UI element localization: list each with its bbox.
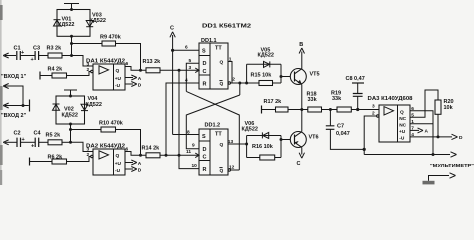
svg-text:NC: NC xyxy=(399,116,406,122)
resistor R13 2k xyxy=(143,59,162,73)
resistor R3 2k xyxy=(47,46,63,59)
svg-text:3: 3 xyxy=(189,65,192,71)
resistor R10 470k xyxy=(99,121,124,133)
wire: Q1 stub xyxy=(228,62,232,83)
svg-text:R4 2k: R4 2k xyxy=(48,67,64,73)
input 2 shield arrow and terminal bar xyxy=(5,105,29,107)
svg-text:C: C xyxy=(170,26,174,32)
wire: R4 to DA1 pin2 xyxy=(67,72,91,76)
wire junction xyxy=(178,69,181,72)
svg-text:A: A xyxy=(425,129,429,135)
svg-text:C4: C4 xyxy=(34,131,42,137)
wire junction xyxy=(363,148,366,151)
diode V04 КД522 xyxy=(81,96,102,111)
input 2 arrow xyxy=(5,141,17,143)
wire: R9 to DA1 output xyxy=(116,44,141,71)
svg-text:D: D xyxy=(203,61,207,67)
svg-text:33k: 33k xyxy=(308,97,318,103)
wire junction xyxy=(69,128,72,131)
wire junction xyxy=(437,135,440,138)
wire junction xyxy=(329,108,332,111)
wire junction xyxy=(238,82,241,85)
wire: clamp loop 1 frame xyxy=(57,10,90,37)
node A arrow (DA2 +U) xyxy=(125,162,133,164)
svg-text:Q: Q xyxy=(116,68,120,74)
svg-text:"МУЛЬТИМЕТР": "МУЛЬТИМЕТР" xyxy=(430,163,474,169)
svg-text:C2: C2 xyxy=(14,131,21,137)
svg-text:DD1.2: DD1.2 xyxy=(205,123,221,129)
node D arrow (DA2 -U) xyxy=(125,168,133,170)
svg-text:10: 10 xyxy=(192,163,198,169)
svg-text:VT6: VT6 xyxy=(309,135,319,141)
resistor R14 2k xyxy=(142,146,161,158)
transistor VT6 xyxy=(290,132,318,148)
diode V05 xyxy=(264,61,270,67)
wire junction xyxy=(280,138,283,141)
resistor R19 33k xyxy=(331,91,351,113)
svg-text:+U: +U xyxy=(399,129,406,135)
flip-flop DD1.1 (К561ТМ2) xyxy=(185,24,251,90)
svg-text:B: B xyxy=(299,42,303,48)
wire: VT6 collector up xyxy=(301,110,303,132)
svg-text:C8 0,47: C8 0,47 xyxy=(346,76,365,82)
svg-text:КД522: КД522 xyxy=(258,53,274,59)
resistor R6 2k xyxy=(48,155,67,165)
resistor R9 470k xyxy=(100,35,122,47)
svg-text:R13 2k: R13 2k xyxy=(143,59,162,65)
node C arrow (clock input) xyxy=(170,26,175,135)
svg-text:Q: Q xyxy=(220,168,224,174)
svg-text:A: A xyxy=(138,161,142,167)
multimeter output line xyxy=(364,154,450,156)
resistor R17 2k xyxy=(264,99,289,112)
svg-text:Q: Q xyxy=(400,109,404,115)
resistor R5 2k xyxy=(46,133,63,145)
svg-text:+U: +U xyxy=(115,76,122,82)
svg-text:КД522: КД522 xyxy=(86,102,102,108)
svg-text:5: 5 xyxy=(189,58,192,64)
svg-text:D: D xyxy=(138,167,142,173)
wire: C node to DD1.1 S xyxy=(173,49,199,51)
wire: DA3 pin6 output down to multimeter line xyxy=(410,111,433,155)
wire: VT5 emitter down xyxy=(301,84,303,109)
svg-text:КД522: КД522 xyxy=(58,22,74,28)
svg-text:4: 4 xyxy=(185,78,188,84)
node junction top of loop1 xyxy=(70,8,73,11)
resistor R20 10k xyxy=(435,99,454,114)
svg-text:-U: -U xyxy=(115,168,121,174)
wire xyxy=(20,55,35,57)
wire: loop1 to R9 node xyxy=(71,36,73,55)
capacitor C7 0,047 xyxy=(326,110,364,150)
svg-text:+U: +U xyxy=(115,161,122,167)
wire junction xyxy=(70,42,73,45)
svg-text:11: 11 xyxy=(186,149,191,155)
flip-flop DD1.2 (К561ТМ2) xyxy=(186,123,235,176)
wire: R13 node down to DD1.2 R pin10 xyxy=(179,70,199,168)
svg-text:R17 2k: R17 2k xyxy=(264,99,283,105)
svg-text:TT: TT xyxy=(215,132,222,138)
resistor R16 10k xyxy=(260,155,275,160)
svg-text:12: 12 xyxy=(229,165,235,171)
op-amp DA1 К544УД2 xyxy=(86,59,129,91)
capacitor C8 0,47 xyxy=(346,76,365,110)
wire junction xyxy=(69,95,72,98)
wire: loop to VT5 base xyxy=(281,76,290,78)
wire junction xyxy=(300,108,303,111)
wire: R6 to DA2 pin2 xyxy=(67,157,91,162)
wire xyxy=(262,109,276,111)
svg-text:Q: Q xyxy=(220,59,224,65)
wire xyxy=(40,75,52,77)
svg-text:Q: Q xyxy=(116,153,120,159)
wire: R3 to DA1 pin3 xyxy=(62,55,72,57)
svg-text:3: 3 xyxy=(372,104,375,110)
svg-text:C: C xyxy=(203,69,207,75)
svg-text:10k: 10k xyxy=(444,105,454,111)
node C junction xyxy=(171,49,174,52)
svg-text:A: A xyxy=(138,76,142,82)
wire: R13 to DD1.1 C input xyxy=(160,69,199,71)
resistor R15 10k xyxy=(259,81,273,86)
node C arrow (lower) xyxy=(297,147,305,167)
svg-text:R5 2k: R5 2k xyxy=(46,133,62,139)
svg-text:D: D xyxy=(459,135,463,141)
svg-text:"ВХОД 2": "ВХОД 2" xyxy=(1,113,27,119)
op-amp DA2 К544УД2 xyxy=(86,144,129,176)
wire: clamp loop 2 frame xyxy=(56,96,85,124)
svg-text:-U: -U xyxy=(115,83,121,89)
svg-text:C: C xyxy=(203,154,207,160)
svg-text:DA3 К140УД608: DA3 К140УД608 xyxy=(368,96,413,102)
wire xyxy=(39,55,48,57)
svg-text:S: S xyxy=(202,134,206,140)
wire junction xyxy=(69,123,72,126)
svg-text:Q: Q xyxy=(220,142,224,148)
wire: R9 branch xyxy=(72,43,103,45)
svg-text:1: 1 xyxy=(229,57,232,63)
diode/resistor loop V06 R16 xyxy=(242,121,282,160)
wire: DA2 output to R14 xyxy=(125,152,146,156)
wire: DA3 pin5 up over to R20 xyxy=(410,90,438,117)
svg-text:КД522: КД522 xyxy=(90,18,106,24)
svg-text:КД522: КД522 xyxy=(242,127,258,133)
ground (multimeter common) xyxy=(423,181,435,185)
svg-text:3: 3 xyxy=(87,147,90,153)
node A arrow (DA3 +U pin7) xyxy=(410,129,419,131)
wire junction xyxy=(139,69,142,72)
node D arrow (DA3 -U pin4) xyxy=(410,136,452,138)
node A arrow (DA1 +U) xyxy=(125,77,133,79)
wire: Q1bar feed xyxy=(231,83,247,95)
svg-text:0,047: 0,047 xyxy=(336,131,350,137)
wire: R10 to DA2 output xyxy=(116,130,141,156)
input 1 arrow xyxy=(5,55,16,57)
diode/resistor loop V05 R15 xyxy=(247,48,281,86)
wire: R10 branch xyxy=(71,129,102,131)
wire junction xyxy=(432,153,435,156)
wire: DD1.1 D pin5 elbow down to diagonal xyxy=(186,63,199,91)
svg-text:R10 470k: R10 470k xyxy=(99,121,124,127)
dynamic C input mark xyxy=(195,153,199,158)
ground bar (common, lower) xyxy=(64,90,77,96)
diode V03 КД522 xyxy=(86,13,106,27)
wire junction xyxy=(165,154,168,157)
wire xyxy=(21,141,35,143)
svg-text:33k: 33k xyxy=(332,96,342,102)
svg-text:Q: Q xyxy=(220,81,224,87)
node B arrow xyxy=(299,42,304,69)
wire: DA1 output to R13 xyxy=(125,67,146,71)
svg-text:D: D xyxy=(138,82,142,88)
svg-text:"ВХОД 1": "ВХОД 1" xyxy=(1,74,27,80)
svg-text:NC: NC xyxy=(399,123,406,129)
R17 terminal bar xyxy=(261,106,263,114)
svg-text:R: R xyxy=(203,82,207,88)
wire junction xyxy=(356,108,359,111)
wire: loop2 down to line2 xyxy=(70,124,72,142)
svg-text:TT: TT xyxy=(215,46,222,52)
resistor R4 2k xyxy=(48,67,67,79)
capacitor C4 xyxy=(31,131,41,150)
wire junction xyxy=(280,75,283,78)
svg-text:C1: C1 xyxy=(14,46,21,52)
svg-text:+: + xyxy=(31,144,34,150)
dynamic C input mark xyxy=(195,68,199,73)
svg-text:R3 2k: R3 2k xyxy=(47,46,63,52)
svg-text:C3: C3 xyxy=(33,46,40,52)
op-amp DA3 К140УД608 xyxy=(368,96,415,142)
svg-text:2: 2 xyxy=(232,77,235,83)
wire junction xyxy=(70,54,73,57)
diode V06 xyxy=(263,132,269,138)
wire xyxy=(322,109,338,111)
wire xyxy=(288,109,308,111)
capacitor C2 xyxy=(14,131,25,148)
svg-text:R15 10k: R15 10k xyxy=(251,72,273,78)
R4 terminal bar xyxy=(39,72,41,80)
wire: DA3 pin1 stub xyxy=(410,123,433,125)
wire: R5 to DA2 pin3 xyxy=(62,141,71,143)
wire: cross diagonal Q2bar to D1 xyxy=(186,91,239,170)
wire junction xyxy=(139,154,142,157)
svg-text:3: 3 xyxy=(87,62,90,68)
svg-text:R6 2k: R6 2k xyxy=(48,155,64,161)
wire: cross diagonal Q1bar to D2 xyxy=(186,95,240,149)
svg-text:VT5: VT5 xyxy=(310,72,320,78)
node junction bottom of loop1 xyxy=(70,35,73,38)
wire: Q2 pin13 to loop xyxy=(228,143,247,145)
wire: loop to VT6 base xyxy=(281,139,290,141)
R6 terminal bar xyxy=(29,158,31,166)
wire: R14 node up to DD1.1 R pin4 xyxy=(166,83,199,155)
svg-text:R: R xyxy=(203,167,207,173)
transistor VT5 xyxy=(290,69,319,85)
svg-text:+: + xyxy=(31,57,34,63)
svg-text:8: 8 xyxy=(187,130,190,136)
svg-text:R16 10k: R16 10k xyxy=(252,144,274,150)
svg-text:-U: -U xyxy=(399,136,405,142)
svg-text:13: 13 xyxy=(228,139,234,145)
svg-text:D: D xyxy=(203,147,207,153)
capacitor C1 xyxy=(14,46,25,61)
wire: R20 bottom to D rail xyxy=(437,114,439,137)
svg-text:C7: C7 xyxy=(337,124,344,130)
svg-text:S: S xyxy=(202,49,206,55)
wire junction xyxy=(22,104,25,107)
svg-text:2: 2 xyxy=(87,67,90,73)
wire junction xyxy=(69,141,72,144)
wire: R19 to DA3 pin3 xyxy=(351,109,379,111)
svg-text:DD1 К561ТМ2: DD1 К561ТМ2 xyxy=(202,24,251,30)
svg-text:R9 470k: R9 470k xyxy=(100,35,122,41)
svg-text:C: C xyxy=(297,161,301,167)
wire junction xyxy=(245,143,248,146)
scan edge artifacts xyxy=(0,0,2,185)
node D arrow (DA1 -U) xyxy=(125,83,133,85)
wire xyxy=(39,141,48,143)
svg-text:КД522: КД522 xyxy=(62,113,78,119)
input 1 shield arrow xyxy=(5,86,23,106)
wire: C node to DD1.2 S xyxy=(173,134,199,136)
wire: DA3 pin2 to C7 node xyxy=(364,116,376,155)
wire xyxy=(30,161,53,163)
wire: R14 to DD1.2 C input xyxy=(160,154,199,156)
wire junction xyxy=(178,154,181,157)
svg-text:6: 6 xyxy=(185,45,188,51)
Q2bar inversion circle and stub xyxy=(228,169,230,171)
diode V01 КД522 xyxy=(54,17,75,29)
ground bar (common, top) xyxy=(64,4,79,10)
wire junction xyxy=(245,82,248,85)
Q1bar inversion circle xyxy=(228,82,230,84)
svg-text:R14 2k: R14 2k xyxy=(142,146,161,152)
svg-text:2: 2 xyxy=(87,152,90,158)
diode V02 КД522 xyxy=(53,104,78,119)
svg-text:9: 9 xyxy=(192,143,195,149)
resistor R18 33k xyxy=(307,92,322,113)
capacitor C3 xyxy=(31,46,41,64)
